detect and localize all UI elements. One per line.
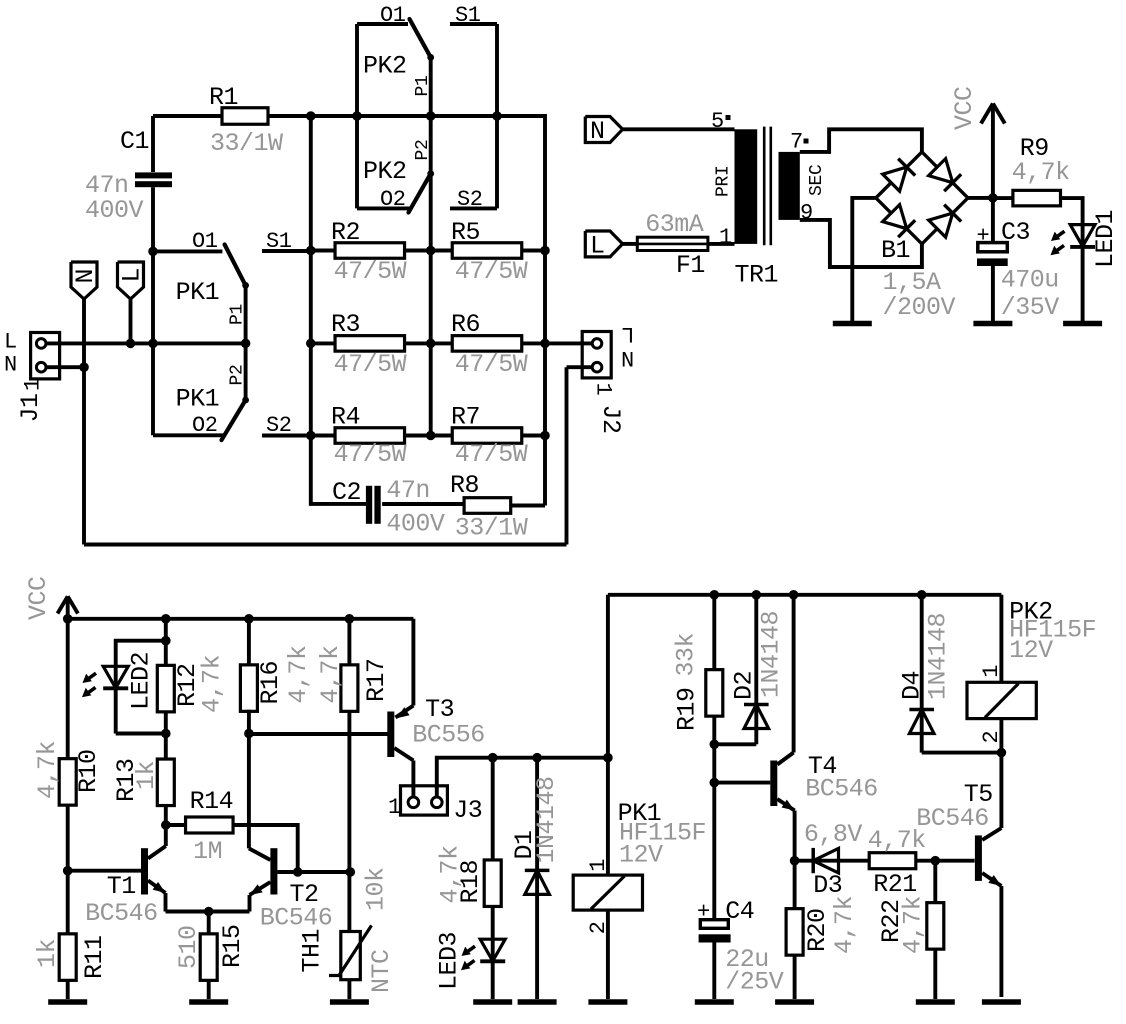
svg-text:R5: R5: [451, 218, 480, 247]
svg-text:4,7k: 4,7k: [198, 655, 227, 713]
resistor R9: [993, 196, 1013, 200]
switch PK2 blade P2: [409, 174, 431, 213]
bridge diode bottom-left: [883, 205, 907, 229]
capacitor C4: [700, 920, 728, 929]
wire secondary bottom to bridge: [800, 220, 922, 267]
svg-text:5: 5: [711, 109, 724, 134]
svg-text:400V: 400V: [85, 196, 144, 225]
svg-text:1M: 1M: [193, 837, 222, 866]
svg-text:47/5W: 47/5W: [334, 350, 407, 379]
svg-text:1N4148: 1N4148: [532, 776, 561, 863]
LED1 arrows: [1055, 231, 1065, 238]
flag L input: [118, 262, 144, 299]
wire J2 pin2 stub: [545, 341, 593, 345]
svg-text:T1: T1: [107, 872, 136, 901]
svg-text:1: 1: [979, 665, 1004, 678]
switch PK2 left vertical: [355, 24, 359, 208]
resistor R22: [927, 903, 944, 950]
svg-text:R3: R3: [331, 310, 360, 339]
switch PK2 bottom O2 line: [357, 206, 410, 210]
node R17 top: [345, 614, 355, 624]
wire PK1 coil vertical: [606, 595, 610, 875]
resistor R17: [341, 665, 358, 712]
ground R20: [775, 999, 814, 1005]
ground LED1: [1063, 321, 1102, 327]
svg-text:1: 1: [388, 795, 401, 820]
wire bridge plus to VCC node: [968, 196, 993, 200]
ground D1: [518, 999, 557, 1005]
node D1 top: [532, 753, 542, 763]
switch PK2 blade P1: [410, 19, 431, 57]
resistor R11: [59, 934, 76, 981]
svg-text:33/1W: 33/1W: [210, 129, 283, 158]
wire PK2 middle bus: [429, 57, 433, 435]
node N junction: [79, 362, 89, 372]
wire R13 to R14 node: [164, 805, 168, 846]
svg-text:R15: R15: [218, 924, 247, 968]
svg-text:R6: R6: [451, 310, 480, 339]
capacitor C2: [366, 486, 372, 524]
svg-text:BC556: BC556: [412, 721, 485, 750]
ground T5: [982, 999, 1021, 1005]
wire VCC rail corner to T3: [411, 619, 415, 706]
connector J3: [401, 786, 448, 815]
wire T2 emitter: [248, 895, 252, 912]
flag L transformer: [585, 231, 622, 257]
flag N transformer: [585, 117, 622, 143]
svg-text:PK2: PK2: [363, 157, 407, 186]
wire left bus: [311, 116, 366, 504]
node R12/R13: [161, 729, 171, 739]
wire C2 to R8: [382, 502, 464, 506]
wire D2 bottom elbow: [714, 742, 756, 746]
svg-text:R14: R14: [190, 787, 234, 816]
node left bus row1: [306, 246, 316, 256]
node row3 mid: [426, 431, 436, 441]
wire T1 emitter: [164, 893, 168, 912]
wire L to fuse: [623, 242, 638, 246]
svg-text:C4: C4: [725, 897, 754, 926]
wire emitter rail: [166, 910, 250, 914]
svg-text:R11: R11: [80, 935, 109, 979]
svg-text:SEC: SEC: [807, 164, 827, 196]
svg-text:R20: R20: [803, 908, 832, 952]
svg-text:D3: D3: [813, 871, 842, 900]
fuse F1: [637, 237, 708, 250]
svg-text:/25V: /25V: [725, 968, 784, 997]
flag N input: [71, 262, 97, 299]
wire VCC rail: [68, 617, 414, 621]
wire J3 pin2 up: [437, 758, 608, 798]
transistor T3: [387, 712, 394, 758]
svg-text:4,7k: 4,7k: [316, 645, 345, 703]
wire R22 to ground: [933, 950, 937, 999]
wire fuse to TR1: [708, 242, 735, 246]
wire R11 to ground: [66, 980, 70, 999]
svg-text:1N4148: 1N4148: [924, 613, 953, 700]
node PK2 pole / rail: [426, 111, 436, 121]
node PK1 pole junction: [241, 339, 251, 349]
wire R12 to R13: [164, 712, 168, 760]
wire R15 to ground: [207, 980, 211, 999]
resistor R3: [335, 336, 405, 352]
node PK2 P2 contact: [427, 170, 434, 177]
wire D4 top lead: [920, 595, 924, 753]
resistor R21: [869, 853, 916, 869]
node left bus row2: [306, 339, 316, 349]
wire C1 top lead: [151, 116, 155, 172]
wire R18 to LED3: [491, 906, 495, 999]
wire right top rail: [608, 593, 1002, 597]
svg-text:10k: 10k: [362, 867, 391, 911]
node R16 top: [244, 614, 254, 624]
node S1S2 / rail: [492, 111, 502, 121]
LED LED2: [103, 666, 128, 688]
diode D3 zener: [795, 859, 870, 863]
bridge diode top-left: [883, 167, 907, 191]
svg-text:1: 1: [719, 225, 732, 250]
svg-text:1N4148: 1N4148: [757, 611, 786, 698]
node LED2 branch: [161, 636, 171, 646]
svg-text:N: N: [4, 353, 17, 378]
capacitor C1: [135, 172, 172, 178]
wire row3: [311, 434, 545, 438]
wire row1: [311, 249, 545, 253]
svg-text:BC546: BC546: [805, 775, 878, 804]
node left bus / rail: [306, 111, 316, 121]
switch PK1 bottom O2 line: [153, 433, 224, 437]
bridge diode bottom-right: [929, 213, 953, 237]
node row1 right: [540, 246, 550, 256]
transistor T4: [770, 761, 777, 807]
ground R15: [189, 999, 228, 1005]
node D4 rail: [917, 590, 927, 600]
svg-text:L: L: [4, 330, 17, 355]
relay coil PK2: [967, 682, 1036, 718]
svg-text:O2: O2: [380, 187, 406, 212]
svg-text:F1: F1: [676, 251, 705, 280]
wire LED2 bottom: [116, 732, 166, 736]
svg-text:4,7k: 4,7k: [830, 896, 859, 954]
svg-text:L: L: [118, 268, 147, 283]
node left bus row3: [306, 431, 316, 441]
transistor T1: [141, 848, 148, 894]
node R22 top: [931, 856, 941, 866]
svg-text:L: L: [590, 232, 605, 261]
wire S1-S2 vertical: [495, 24, 499, 208]
transistor T2: [270, 848, 277, 894]
svg-text:C3: C3: [1001, 218, 1030, 247]
svg-text:4,7k: 4,7k: [284, 645, 313, 703]
transformer TR1 core: [763, 127, 766, 246]
svg-text:PK1: PK1: [176, 385, 220, 414]
svg-text:47/5W: 47/5W: [334, 257, 407, 286]
svg-text:O1: O1: [192, 229, 218, 254]
resistor R8: [464, 498, 511, 514]
node PK2 P1 contact: [427, 54, 434, 61]
svg-text:BC546: BC546: [85, 899, 158, 928]
node R15 top: [204, 907, 214, 917]
wire R21 to T5 base: [916, 859, 975, 863]
svg-text:C1: C1: [120, 127, 149, 156]
node T4 base: [710, 778, 720, 788]
wire R10 to base node: [66, 805, 70, 871]
transistor T5: [975, 835, 982, 881]
wire D4 bottom elbow: [922, 751, 1002, 755]
wire D2 top lead: [754, 595, 758, 745]
wire R16 to T2 collector: [247, 710, 251, 849]
svg-text:LED1: LED1: [1091, 210, 1120, 268]
resistor R14: [166, 823, 186, 827]
resistor R2: [335, 243, 405, 259]
wire T1 base: [68, 869, 141, 873]
diode D4: [909, 708, 934, 712]
wire S1 top line: [450, 22, 497, 26]
wire bridge minus to ground: [852, 198, 876, 322]
node row2 mid: [426, 339, 436, 349]
wire T3 base rail: [249, 732, 388, 736]
wire T5 collector: [999, 753, 1003, 828]
switch PK1 top O1 line: [153, 249, 222, 253]
wire T2 base: [277, 870, 350, 874]
power VCC arrow top: [991, 104, 995, 243]
wire S1 stub: [262, 249, 311, 253]
svg-text:L: L: [622, 321, 635, 346]
svg-text:+: +: [697, 900, 710, 925]
wire base node to R11: [66, 871, 70, 935]
svg-text:LED2: LED2: [127, 652, 156, 710]
wire N flag lead: [82, 299, 86, 367]
svg-text:N: N: [621, 349, 634, 374]
power VCC arrow bottom: [66, 596, 70, 618]
wire bottom rail: [84, 543, 567, 547]
svg-text:R16: R16: [256, 661, 285, 705]
svg-text:P1: P1: [228, 304, 248, 325]
svg-text:510: 510: [174, 925, 203, 969]
node row3 right: [540, 431, 550, 441]
node PK2 left / rail: [352, 111, 362, 121]
LED LED1: [1070, 225, 1095, 247]
svg-text:47/5W: 47/5W: [455, 440, 528, 469]
svg-text:1: 1: [586, 859, 611, 872]
svg-text:47n: 47n: [386, 476, 430, 505]
node PK2/T5 collector: [997, 748, 1007, 758]
svg-text:33/1W: 33/1W: [455, 514, 528, 543]
wire R15 lead: [207, 912, 211, 935]
wire right rail up to J2: [565, 367, 569, 544]
resistor R1: [222, 108, 268, 125]
svg-text:BC546: BC546: [916, 804, 989, 833]
svg-text:TR1: TR1: [735, 261, 779, 290]
svg-text:O2: O2: [192, 413, 218, 438]
resistor R16: [240, 665, 257, 712]
svg-text:/35V: /35V: [1001, 293, 1060, 322]
ground bridge: [833, 321, 872, 327]
svg-text:1: 1: [21, 378, 46, 391]
svg-text:LED3: LED3: [435, 932, 464, 990]
LED2 arrows: [87, 673, 97, 680]
wire left down to bottom rail: [82, 367, 86, 544]
wire R22 lead: [933, 861, 937, 902]
node R19/D2: [710, 740, 720, 750]
ground C4: [695, 999, 734, 1005]
svg-text:47/5W: 47/5W: [334, 440, 407, 469]
svg-text:12V: 12V: [1009, 636, 1053, 665]
wire D1 lead: [535, 758, 539, 999]
wire R20 lead: [793, 861, 797, 910]
svg-text:R19: R19: [673, 687, 702, 731]
svg-text:O1: O1: [380, 3, 406, 28]
resistor R7: [452, 428, 522, 444]
svg-text:R2: R2: [331, 218, 360, 247]
wire S2 stub: [262, 434, 311, 438]
svg-text:12V: 12V: [619, 841, 663, 870]
wire T3 collector to J3: [411, 761, 415, 798]
node TH1 top: [346, 867, 356, 877]
resistor R6: [452, 336, 522, 352]
node VCC rail: [63, 614, 73, 624]
svg-text:C2: C2: [332, 478, 361, 507]
wire R9 to LED1: [1061, 198, 1083, 322]
node D2 rail: [752, 590, 762, 600]
ground R22: [916, 999, 955, 1005]
wire PK2 coil from rail: [999, 595, 1003, 683]
svg-text:D2: D2: [730, 671, 759, 700]
wire L flag lead: [129, 299, 133, 343]
resistor R13: [157, 759, 174, 806]
svg-text:J3: J3: [453, 796, 482, 825]
node R18 top: [488, 753, 498, 763]
svg-text:R21: R21: [873, 870, 917, 899]
resistor R15: [200, 934, 217, 981]
wire TH1 to ground: [347, 980, 351, 999]
svg-text:TH1: TH1: [298, 929, 327, 973]
svg-text:VCC: VCC: [950, 86, 979, 130]
node R19 rail: [710, 590, 720, 600]
wire rail right corner: [497, 116, 545, 506]
node T3 base rail left: [244, 729, 254, 739]
wire T4 emitter: [793, 811, 797, 861]
ground C3: [973, 321, 1012, 327]
connector J2: [582, 332, 611, 378]
svg-text:D4: D4: [898, 671, 927, 700]
bridge diode top-right: [929, 159, 953, 183]
transformer TR1 primary: [735, 129, 758, 244]
svg-text:N: N: [71, 269, 100, 284]
svg-text:J1: J1: [16, 393, 45, 422]
wire C3 to ground: [991, 266, 995, 322]
svg-text:47/5W: 47/5W: [455, 350, 528, 379]
ground R11: [48, 999, 87, 1005]
resistor R5: [452, 243, 522, 259]
svg-text:+: +: [977, 224, 990, 249]
node T4 rail: [789, 590, 799, 600]
wire PK1 P2 from center: [244, 343, 248, 400]
wire PK1 P1 to center: [244, 285, 248, 343]
resistor R10: [59, 759, 76, 806]
wire R17 down to TH1: [347, 711, 351, 932]
switch PK1 blade P2: [222, 400, 246, 440]
resistor R12: [157, 665, 174, 712]
svg-text:6,8V: 6,8V: [804, 820, 863, 849]
svg-text:N: N: [590, 117, 605, 146]
node VCC junction: [988, 193, 998, 203]
wire R12 top lead: [164, 619, 168, 665]
svg-text:R10: R10: [74, 749, 103, 793]
ground LED3: [473, 999, 512, 1005]
transformer TR1 secondary: [779, 152, 800, 220]
switch PK1 blade P1: [225, 245, 246, 286]
wire R8 right: [511, 504, 545, 508]
switch PK1 left vertical: [151, 251, 155, 435]
svg-text:PK1: PK1: [176, 278, 220, 307]
wire R19 top lead: [712, 595, 716, 671]
resistor R19: [706, 670, 723, 717]
svg-text:1k: 1k: [33, 939, 62, 968]
svg-text:PRI: PRI: [714, 165, 734, 197]
LED LED3: [480, 939, 505, 961]
svg-text:J2: J2: [596, 405, 625, 434]
svg-text:4,7k: 4,7k: [899, 896, 928, 954]
wire R1 rail: [153, 114, 545, 118]
svg-text:/200V: /200V: [883, 293, 956, 322]
svg-text:B1: B1: [881, 236, 910, 265]
node PK1 coil top: [603, 753, 613, 763]
wire R17 top lead: [347, 619, 351, 666]
relay coil PK1: [573, 875, 642, 910]
node R14/T2 base: [293, 867, 303, 877]
resistor R18: [484, 860, 501, 907]
connector J1: [31, 333, 60, 379]
wire T4 collector: [792, 595, 796, 753]
ground PK1: [588, 999, 627, 1005]
node PK1 P2 contact: [242, 397, 249, 404]
svg-text:NTC: NTC: [367, 949, 396, 993]
node R14 left: [161, 820, 171, 830]
svg-text:R17: R17: [362, 658, 391, 702]
wire J1 pin1 stub: [46, 365, 84, 369]
diode D2: [744, 703, 769, 707]
wire T4 base: [714, 781, 770, 785]
wire S2 top line: [450, 206, 497, 210]
node row2 right: [540, 339, 550, 349]
node T1 base: [63, 866, 73, 876]
svg-text:470u: 470u: [1001, 266, 1059, 295]
svg-text:4,7k: 4,7k: [436, 845, 465, 903]
svg-text:R7: R7: [451, 403, 480, 432]
resistor R20: [786, 909, 803, 956]
svg-text:1k: 1k: [132, 761, 161, 790]
node LED2 top: [161, 614, 171, 624]
capacitor C3: [978, 243, 1008, 252]
bridge B1 diamond: [876, 152, 968, 244]
thermistor TH1: [341, 932, 361, 980]
switch PK2 top O1 line: [357, 22, 408, 26]
wire J1 pin2 row: [46, 341, 246, 345]
node T4 emitter/D3: [790, 856, 800, 866]
svg-text:P2: P2: [228, 364, 248, 385]
resistor R4: [335, 428, 405, 444]
wire secondary top to bridge: [800, 129, 922, 152]
node PK1 P1 contact: [242, 282, 249, 289]
svg-text:VCC: VCC: [24, 576, 53, 620]
wire PK2 coil pin2: [999, 719, 1003, 753]
wire N to TR1: [623, 127, 735, 131]
svg-text:400V: 400V: [386, 510, 445, 539]
svg-text:P2: P2: [413, 139, 433, 160]
svg-text:33k: 33k: [672, 633, 701, 677]
svg-text:R8: R8: [450, 471, 479, 500]
